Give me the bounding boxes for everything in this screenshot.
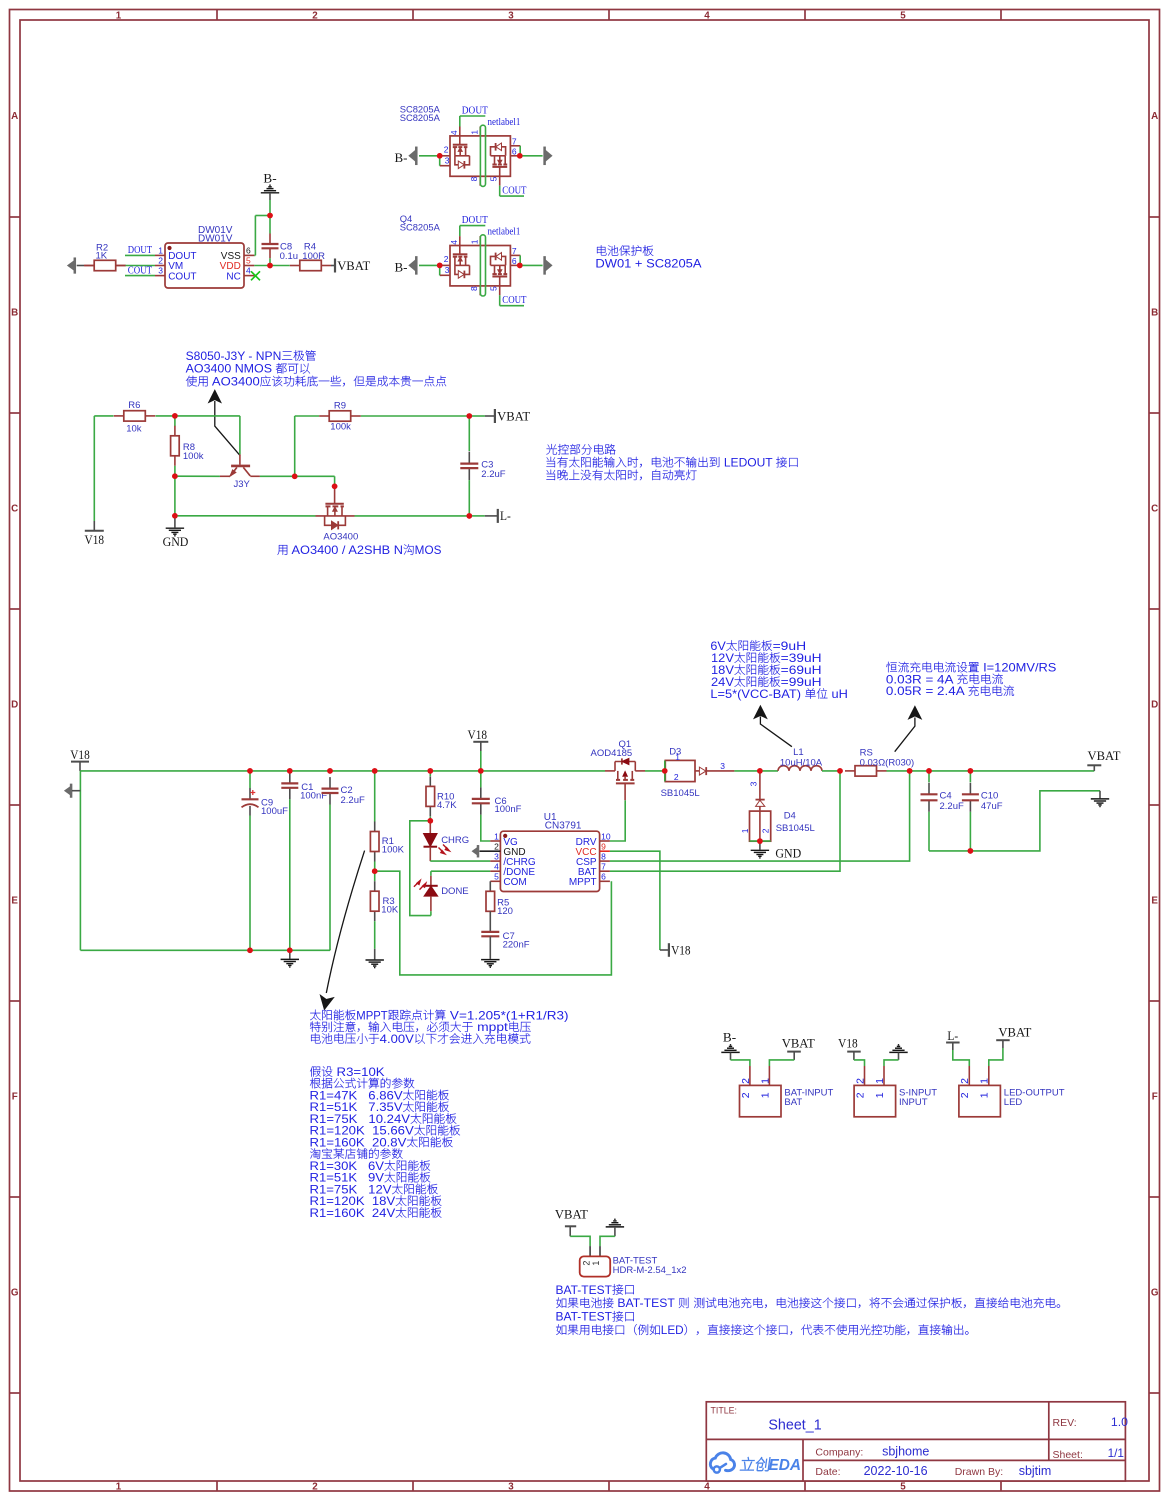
- connector P2 S-INPUT: [854, 1066, 937, 1117]
- svg-text:4: 4: [494, 862, 499, 872]
- svg-text:1: 1: [470, 239, 480, 244]
- ground GND light circuit: [163, 516, 189, 549]
- svg-text:10uH/10A: 10uH/10A: [780, 757, 823, 768]
- ground GND below D4: [751, 841, 802, 860]
- ground below C7: [481, 960, 499, 968]
- annotation 用 AO3400 / A2SHB: [277, 545, 287, 555]
- wire R9 row left: [295, 415, 320, 417]
- connector P3 LED-OUTPUT: [959, 1066, 1065, 1117]
- svg-text:0.03Ω(R030): 0.03Ω(R030): [860, 757, 915, 768]
- power flag V18 above C6: [468, 727, 489, 771]
- svg-text:C10: C10: [981, 790, 998, 801]
- wire to L- flag: [469, 515, 485, 517]
- svg-text:D: D: [11, 700, 18, 711]
- svg-text:5: 5: [246, 256, 251, 266]
- wire COUT from pin5: [500, 295, 524, 305]
- svg-text:6: 6: [512, 147, 517, 157]
- svg-text:BAT: BAT: [784, 1097, 802, 1108]
- junction dot right: [517, 263, 523, 269]
- svg-text:10: 10: [601, 831, 611, 841]
- svg-text:Sheet:: Sheet:: [1053, 1449, 1083, 1461]
- svg-text:R1=160K 24V: R1=160K 24V: [310, 1207, 396, 1220]
- svg-text:B-: B-: [723, 1029, 736, 1044]
- svg-text:SC8205A: SC8205A: [400, 221, 441, 232]
- wire ground to BAT-TEST pin1: [600, 1236, 615, 1246]
- svg-text:R6: R6: [128, 400, 140, 411]
- svg-text:SB1045L: SB1045L: [661, 788, 700, 799]
- svg-text:CHRG: CHRG: [441, 835, 469, 846]
- transistor Q1 AOD4185 PMOS: [591, 739, 646, 800]
- svg-text:BAT-TEST: BAT-TEST: [614, 1297, 678, 1310]
- svg-text:MPPT: MPPT: [356, 1009, 387, 1022]
- junction dots C1: [287, 768, 293, 774]
- wire B- port to pin2: [419, 264, 440, 266]
- wire COUT from pin5: [500, 186, 524, 196]
- svg-text:2: 2: [158, 256, 163, 266]
- capacitor C2 2.2uF: [322, 777, 365, 950]
- svg-text:Date:: Date:: [815, 1466, 840, 1478]
- wire DOUT to pin4: [460, 226, 486, 237]
- svg-text:DOUT: DOUT: [462, 215, 489, 226]
- svg-text:netlabel1: netlabel1: [488, 226, 521, 237]
- svg-text:MOS: MOS: [415, 544, 442, 557]
- svg-text:6: 6: [512, 256, 517, 266]
- svg-text:47uF: 47uF: [981, 801, 1003, 812]
- junction dot C2: [327, 768, 333, 774]
- svg-text:3: 3: [494, 851, 499, 861]
- svg-text:V18: V18: [70, 747, 90, 762]
- svg-text:REV:: REV:: [1053, 1417, 1077, 1429]
- svg-text:R9: R9: [334, 400, 346, 411]
- wire drain to L- node: [355, 515, 470, 517]
- IC U1 CN3791: [490, 812, 611, 891]
- net flag VBAT above BAT-INPUT: [782, 1035, 815, 1060]
- svg-text:COUT: COUT: [168, 271, 196, 282]
- annotation BAT-TEST usage: [556, 1284, 1061, 1337]
- ground flag above S-INPUT pin1: [889, 1045, 907, 1060]
- svg-text:BAT-TEST: BAT-TEST: [556, 1311, 613, 1324]
- resistor R3 10K: [370, 871, 398, 949]
- svg-text:2.2uF: 2.2uF: [341, 795, 365, 806]
- svg-text:1: 1: [740, 828, 750, 833]
- svg-text:VBAT: VBAT: [1088, 748, 1121, 763]
- svg-text:2.2uF: 2.2uF: [481, 469, 505, 480]
- svg-text:mppt: mppt: [473, 1021, 508, 1034]
- svg-text:5: 5: [494, 872, 499, 882]
- wire R8 node to GND: [174, 476, 176, 516]
- svg-text:2: 2: [740, 1092, 752, 1098]
- svg-text:B-: B-: [395, 259, 408, 274]
- svg-text:2: 2: [312, 10, 318, 21]
- junction dot R10/LEDs: [428, 818, 434, 824]
- ref labels SC8205A SC8205A: [400, 104, 441, 123]
- net flag V18 above S-INPUT: [838, 1035, 861, 1060]
- svg-text:4.00V: 4.00V: [380, 1033, 414, 1046]
- svg-text:V18: V18: [671, 942, 691, 957]
- annotation R1 parameter table: [310, 1066, 461, 1220]
- svg-text:DOUT: DOUT: [128, 245, 153, 256]
- wire source row left: [175, 515, 316, 517]
- wire left rail: [94, 416, 113, 521]
- junction dot R10 bus: [428, 768, 434, 774]
- svg-text:220nF: 220nF: [503, 939, 530, 950]
- annotation arrow from R1 to MPPT text: [320, 851, 364, 1010]
- junction dot D4: [757, 768, 763, 774]
- junction dot D4 bottom: [757, 838, 763, 844]
- wire DRV to Q1 gate: [610, 800, 625, 841]
- svg-text:C: C: [11, 504, 18, 515]
- diode D3 SB1045L: [661, 746, 735, 799]
- svg-text:2: 2: [854, 1078, 866, 1084]
- svg-text:2.2uF: 2.2uF: [940, 801, 964, 812]
- svg-text:L-: L-: [500, 508, 511, 523]
- net flag VBAT right: [1087, 748, 1120, 771]
- wire to VBAT flag: [469, 415, 485, 417]
- svg-text:LED: LED: [1004, 1097, 1023, 1108]
- svg-text:9: 9: [601, 842, 606, 852]
- svg-text:E: E: [1151, 896, 1158, 907]
- svg-text:GND: GND: [163, 534, 189, 549]
- svg-text:2: 2: [312, 1481, 318, 1492]
- annotation inductor values: [710, 640, 848, 701]
- svg-text:AO3400: AO3400: [323, 532, 358, 543]
- svg-text:8: 8: [469, 176, 479, 181]
- svg-text:B: B: [11, 308, 18, 319]
- svg-text:R1=160K 20.8V: R1=160K 20.8V: [310, 1136, 407, 1149]
- wire pin7 to pin6: [519, 255, 521, 265]
- junction dot C10 bus: [968, 768, 974, 774]
- svg-text:1: 1: [591, 1261, 601, 1266]
- wire caps bottom to ground: [929, 791, 1100, 851]
- svg-text:2: 2: [959, 1078, 971, 1084]
- capacitor C1 100nF: [281, 772, 327, 950]
- annotation 光控部分电路 block: [546, 444, 797, 480]
- svg-text:4: 4: [704, 10, 710, 21]
- svg-text:1: 1: [470, 130, 480, 135]
- svg-text:V18: V18: [838, 1035, 858, 1050]
- net flag L-: [485, 508, 511, 523]
- resistor R1 100K: [370, 771, 404, 871]
- svg-text:VBAT: VBAT: [998, 1024, 1031, 1039]
- inductor L1 10uH/10A: [760, 747, 840, 771]
- wire DONE anode to pin4: [431, 870, 490, 872]
- resistor R5 120: [486, 881, 513, 931]
- wire pin7 to pin6: [519, 146, 521, 156]
- svg-text:COM: COM: [503, 877, 526, 888]
- wire VDD to R4: [254, 265, 289, 267]
- port arrow left rail: [65, 784, 81, 797]
- junction dot D3: [662, 768, 668, 774]
- svg-text:2: 2: [674, 772, 679, 782]
- svg-text:4: 4: [704, 1481, 710, 1492]
- net port B- left (SC8205A): [395, 257, 418, 275]
- wire up to R9: [294, 416, 296, 476]
- LCEDA logo: [710, 1453, 801, 1474]
- svg-text:I=120MV/RS: I=120MV/RS: [980, 662, 1057, 675]
- capacitor C3 2.2uF: [460, 416, 505, 516]
- junction dot R6/R8: [172, 413, 178, 419]
- svg-text:EDA: EDA: [769, 1457, 802, 1474]
- ground flag above BAT-TEST: [606, 1219, 624, 1236]
- svg-text:LEDOUT: LEDOUT: [721, 457, 776, 470]
- svg-text:1.0: 1.0: [1111, 1415, 1128, 1429]
- wire RS to VBAT: [887, 770, 1095, 772]
- junction dot R8/base: [172, 473, 178, 479]
- svg-text:1: 1: [116, 1481, 122, 1492]
- svg-text:4: 4: [449, 240, 459, 245]
- svg-text:2: 2: [760, 828, 770, 833]
- connector P1 BAT-INPUT: [740, 1066, 834, 1117]
- svg-text:4: 4: [246, 266, 251, 276]
- resistor R10 4.7K: [426, 771, 457, 821]
- net flag B- above C8: [261, 171, 279, 200]
- svg-text:L-: L-: [947, 1028, 958, 1043]
- resistor R9 100k: [319, 400, 361, 432]
- junction dot left: [437, 153, 443, 159]
- wire base node: [175, 475, 220, 477]
- svg-text:1K: 1K: [96, 251, 108, 262]
- svg-text:netlabel1: netlabel1: [488, 117, 521, 128]
- svg-text:VBAT: VBAT: [337, 258, 370, 273]
- svg-text:2: 2: [444, 254, 449, 264]
- svg-text:DW01 + SC8205A: DW01 + SC8205A: [595, 257, 701, 270]
- svg-text:HDR-M-2.54_1x2: HDR-M-2.54_1x2: [613, 1265, 687, 1276]
- svg-text:1: 1: [675, 752, 680, 762]
- svg-text:5: 5: [489, 176, 499, 181]
- wire VCC to V18: [610, 851, 660, 950]
- junction dot R1 bus: [372, 768, 378, 774]
- net flag VBAT right of R4: [331, 258, 370, 273]
- diode D4 SB1045L freewheel: [740, 771, 815, 841]
- junction dot left: [437, 263, 443, 269]
- svg-text:100R: 100R: [302, 251, 325, 262]
- dual-MOSFET SC8205A body: [440, 127, 521, 186]
- wire main bus: [80, 770, 605, 772]
- junction dot C4 bus: [926, 768, 932, 774]
- pin numbers SC8205A: [444, 130, 517, 182]
- annotation arrow to RS: [895, 706, 922, 751]
- pin numbers SC8205A: [444, 239, 517, 291]
- junction dots C9: [247, 768, 253, 774]
- net flag L- above LED-OUTPUT: [946, 1028, 960, 1050]
- svg-text:1: 1: [759, 1078, 771, 1084]
- svg-text:8: 8: [469, 286, 479, 291]
- svg-text:G: G: [1151, 1288, 1159, 1299]
- LED DONE: [414, 871, 469, 915]
- port arrow net B- left of R2: [68, 258, 84, 274]
- wire MPPT feedback: [375, 871, 612, 975]
- svg-text:AO3400 / A2SHB N: AO3400 / A2SHB N: [289, 544, 403, 557]
- svg-text:C4: C4: [940, 790, 952, 801]
- svg-text:100K: 100K: [382, 845, 405, 856]
- junction dot right: [517, 153, 523, 159]
- wire R2 to VM pin: [116, 265, 126, 267]
- svg-text:7: 7: [512, 137, 517, 147]
- LED loop wire: [410, 821, 431, 916]
- junction dot L1/RS: [837, 768, 843, 774]
- annotation 电池保护板 DW01: [595, 245, 701, 270]
- IC U? DW01V: [155, 225, 254, 288]
- svg-text:5: 5: [900, 1481, 906, 1492]
- transistor J3Y S8050 NPN: [220, 454, 260, 490]
- wire to right port: [520, 264, 543, 266]
- wire V18 to pin2: [854, 1060, 865, 1066]
- wire left rail down: [79, 771, 81, 950]
- net label COUT with wire: [125, 265, 155, 276]
- svg-text:3: 3: [720, 761, 725, 771]
- junction dots overlay: [172, 153, 973, 953]
- svg-text:3: 3: [445, 265, 450, 275]
- junction dot gate AO3400: [332, 484, 338, 490]
- power flag V18 top-left bus: [70, 747, 90, 771]
- wire CHRG cathode to pin3: [430, 860, 490, 862]
- resistor R2: [84, 243, 126, 271]
- junction dot L- node: [467, 513, 473, 519]
- wire VBAT to BAT-TEST pin2: [570, 1236, 590, 1246]
- svg-text:D4: D4: [784, 811, 796, 822]
- annotation arrow to L1: [754, 706, 792, 747]
- svg-text:10K: 10K: [381, 904, 399, 915]
- ground below C1: [281, 950, 299, 967]
- svg-text:E: E: [11, 896, 18, 907]
- wire junction to VSS pin: [254, 216, 270, 256]
- net flag B- above BAT-INPUT: [721, 1029, 739, 1060]
- junction dot VDD: [267, 263, 273, 269]
- svg-text:100nF: 100nF: [495, 804, 522, 815]
- wire VBAT to pin1: [769, 1060, 794, 1066]
- svg-text:5: 5: [489, 286, 499, 291]
- wire DOUT to pin4: [460, 116, 486, 127]
- svg-text:sbjtim: sbjtim: [1019, 1464, 1052, 1478]
- junction dot R1/R3 MPPT divider: [372, 868, 378, 874]
- svg-text:VBAT: VBAT: [497, 408, 530, 423]
- net label DOUT with wire: [125, 245, 155, 256]
- svg-text:R3=10K: R3=10K: [333, 1066, 385, 1079]
- svg-text:NC: NC: [226, 271, 240, 282]
- junction dot collector/R9: [292, 474, 298, 480]
- svg-text:0.05R = 2.4A: 0.05R = 2.4A: [886, 685, 968, 698]
- svg-text:L=5*(VCC-BAT): L=5*(VCC-BAT): [710, 688, 804, 701]
- svg-text:3: 3: [445, 155, 450, 165]
- svg-text:DOUT: DOUT: [462, 106, 489, 117]
- transistor AO3400 NMOS: [316, 486, 359, 542]
- net port right (SC8205A): [544, 257, 552, 275]
- net flag VBAT light circuit: [485, 408, 530, 423]
- svg-text:COUT: COUT: [502, 185, 527, 196]
- title block: [706, 1402, 1128, 1481]
- wire ground to pin1: [884, 1060, 899, 1066]
- net flag V18 mid: [660, 942, 691, 957]
- svg-text:TITLE:: TITLE:: [711, 1405, 737, 1415]
- svg-text:2022-10-16: 2022-10-16: [864, 1464, 928, 1478]
- wire B- to pin2: [731, 1060, 750, 1066]
- svg-text:1: 1: [494, 831, 499, 841]
- svg-text:Drawn By:: Drawn By:: [955, 1466, 1003, 1478]
- svg-text:S8050-J3Y - NPN: S8050-J3Y - NPN: [186, 350, 282, 363]
- svg-text:AO3400 NMOS: AO3400 NMOS: [186, 363, 276, 376]
- svg-text:VBAT: VBAT: [782, 1035, 815, 1050]
- ground below R3: [366, 949, 384, 968]
- wire BAT to L1/RS node: [610, 771, 840, 871]
- svg-text:100k: 100k: [183, 451, 204, 462]
- svg-text:1: 1: [874, 1092, 886, 1098]
- svg-text:0.1u: 0.1u: [280, 251, 299, 262]
- svg-text:1: 1: [874, 1078, 886, 1084]
- annotation MPPT calc text block: [310, 1009, 569, 1046]
- svg-text:Company:: Company:: [815, 1446, 863, 1458]
- svg-text:MPPT: MPPT: [569, 877, 597, 888]
- resistor R4 100R: [290, 241, 331, 270]
- svg-text:B: B: [1151, 308, 1158, 319]
- svg-text:A: A: [11, 111, 18, 122]
- net flag VBAT above BAT-TEST: [555, 1206, 588, 1236]
- resistor R6 10k: [114, 400, 155, 435]
- svg-text:4: 4: [449, 130, 459, 135]
- svg-text:1: 1: [979, 1092, 991, 1098]
- netlabel1 bus pin1-pin8: [480, 235, 485, 296]
- wire B- port to pin2: [419, 155, 440, 157]
- svg-text:GND: GND: [775, 845, 801, 860]
- capacitor C4 2.2uF: [921, 771, 964, 851]
- svg-text:COUT: COUT: [502, 295, 527, 306]
- svg-text:6: 6: [601, 872, 606, 882]
- junction dot C10 bottom: [968, 848, 974, 854]
- svg-text:2: 2: [494, 842, 499, 852]
- capacitor C10 47uF: [962, 771, 1003, 851]
- wire collector drop: [239, 416, 241, 455]
- svg-text:F: F: [12, 1092, 18, 1103]
- wire CSP to RS right: [610, 771, 910, 861]
- svg-text:SB1045L: SB1045L: [776, 823, 815, 834]
- svg-text:sbjhome: sbjhome: [882, 1444, 929, 1458]
- junction dot C3 top: [467, 413, 473, 419]
- wire Q1 to D3: [645, 770, 665, 772]
- dual-MOSFET SC8205A body: [440, 236, 521, 295]
- svg-text:SC8205A: SC8205A: [400, 112, 441, 123]
- net port B- left (SC8205A): [395, 147, 418, 165]
- annotation S8050/AO3400 text: [186, 350, 447, 389]
- wire B- down to junction: [269, 200, 271, 216]
- junction dot GND row: [172, 513, 178, 519]
- svg-text:10k: 10k: [126, 424, 142, 435]
- svg-text:AOD4185: AOD4185: [591, 748, 633, 759]
- svg-text:AO3400: AO3400: [209, 376, 260, 389]
- capacitor C9 100uF polarized: [242, 771, 289, 950]
- svg-text:C: C: [1151, 504, 1158, 515]
- resistor R8 100k: [171, 416, 204, 476]
- wire gate drop: [295, 476, 335, 486]
- wire R6 to collector drop: [156, 415, 240, 417]
- svg-text:INPUT: INPUT: [899, 1097, 928, 1108]
- svg-text:100k: 100k: [330, 422, 351, 433]
- svg-text:7: 7: [512, 246, 517, 256]
- net flag VBAT above LED-OUTPUT: [996, 1024, 1031, 1048]
- svg-text:J3Y: J3Y: [234, 479, 251, 490]
- svg-text:B-: B-: [263, 171, 276, 186]
- svg-text:V18: V18: [468, 727, 488, 742]
- svg-text:D: D: [1151, 700, 1158, 711]
- port arrow GND pin2: [472, 845, 500, 857]
- net port right (SC8205A): [544, 147, 552, 165]
- svg-text:CN3791: CN3791: [545, 820, 582, 831]
- wire R9 to VBAT: [361, 415, 470, 417]
- svg-text:3: 3: [508, 1481, 514, 1492]
- wire bottom rail: [80, 949, 330, 951]
- no-connect X on NC pin: [251, 271, 260, 280]
- svg-text:G: G: [11, 1288, 19, 1299]
- svg-text:B-: B-: [395, 150, 408, 165]
- LED CHRG: [424, 821, 470, 861]
